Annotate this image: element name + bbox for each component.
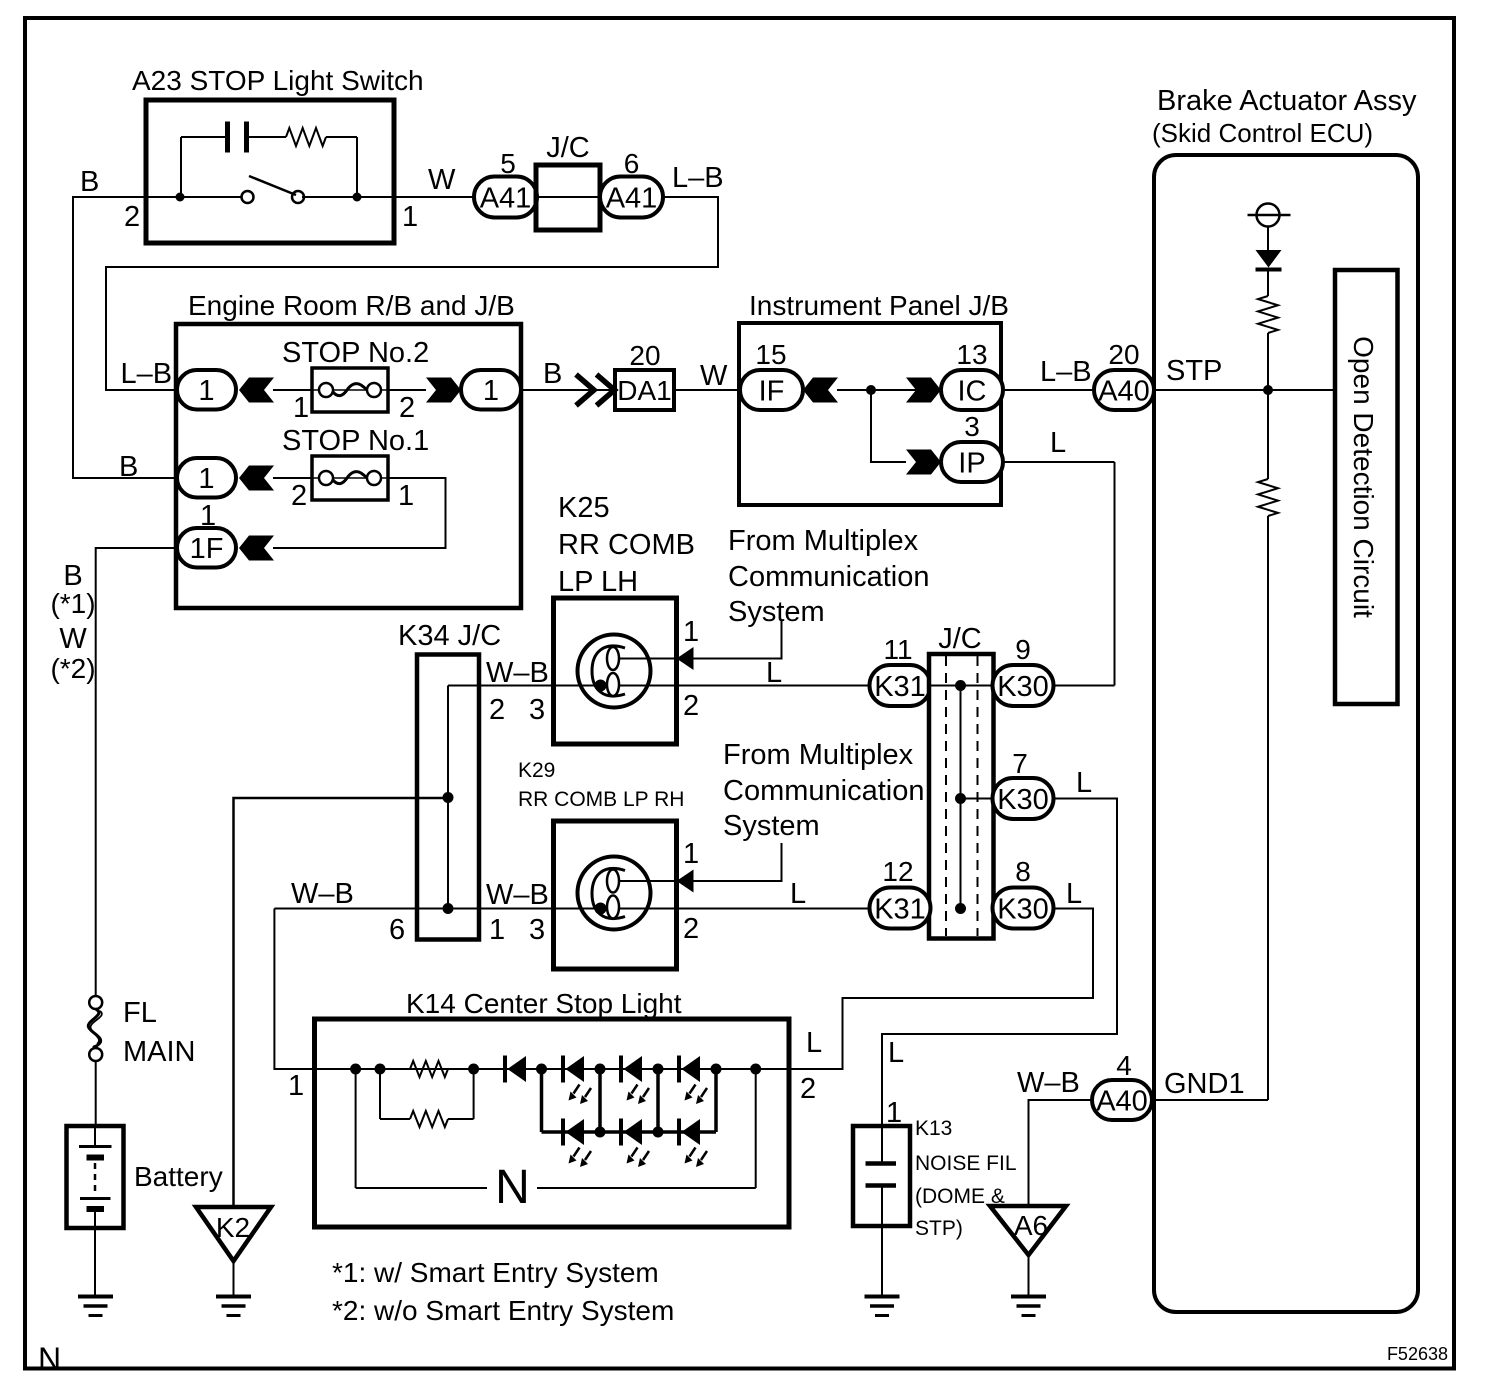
svg-text:1: 1 (293, 392, 309, 424)
connector 1 left row1 (177, 370, 236, 410)
battery internals (94, 1126, 96, 1146)
wire from multiplex 1 (694, 620, 782, 659)
svg-text:13: 13 (956, 339, 987, 370)
arrow after IF (803, 378, 838, 403)
wire K34 to K25 row (448, 685, 556, 687)
LED1 top (561, 1056, 565, 1083)
svg-text:1: 1 (483, 375, 499, 407)
resistor in switch (286, 128, 326, 146)
svg-text:A41: A41 (606, 182, 658, 214)
connector K31 pin 12 (870, 888, 931, 929)
node STP (1263, 385, 1273, 395)
svg-text:RR COMB LP RH: RR COMB LP RH (518, 788, 684, 811)
ladder verticals (540, 1069, 544, 1132)
multiplex arrow K29 (677, 870, 694, 893)
ground below battery (78, 1295, 113, 1299)
ground below A6 (1011, 1295, 1046, 1299)
connector 1 right row1 (461, 370, 521, 410)
connector 1F (177, 528, 236, 568)
wire through J/C (537, 196, 600, 198)
svg-text:N: N (495, 1161, 530, 1214)
node e2 (595, 1127, 606, 1138)
svg-text:L–B: L–B (1040, 356, 1092, 388)
diode (1256, 250, 1282, 268)
wire DA1 to IF (674, 389, 740, 391)
wire K2 to ground (233, 1261, 235, 1296)
svg-text:4: 4 (1116, 1050, 1132, 1081)
N return wire (355, 1069, 357, 1188)
svg-text:System: System (728, 596, 825, 628)
svg-text:(*2): (*2) (50, 653, 95, 684)
svg-text:K13: K13 (915, 1117, 952, 1140)
wire bulb pin1 K25 (618, 658, 677, 660)
svg-text:K25: K25 (558, 492, 610, 524)
svg-text:IF: IF (759, 375, 785, 407)
ground below K13 (865, 1295, 900, 1299)
svg-text:IP: IP (958, 447, 985, 479)
svg-text:W–B: W–B (486, 879, 549, 911)
node dot left (176, 193, 185, 202)
connector K30 pin 7 (993, 778, 1054, 819)
wire K30-9 to IP wire (1054, 685, 1115, 687)
svg-text:System: System (723, 810, 820, 842)
J/C node row2 (955, 793, 966, 804)
wire resistor to right branch (326, 136, 357, 138)
branch wire to capacitor (181, 136, 226, 138)
connector A40 pin 20 (1094, 370, 1154, 410)
svg-text:1: 1 (683, 838, 699, 870)
svg-text:(*1): (*1) (50, 588, 95, 619)
connector DA1 (615, 370, 674, 410)
svg-text:N: N (38, 1341, 61, 1377)
svg-text:20: 20 (629, 340, 660, 371)
wire resistor to node (1267, 333, 1269, 390)
svg-text:(Skid Control ECU): (Skid Control ECU) (1152, 118, 1373, 148)
arrow row1 left (239, 378, 274, 403)
fusible link FL MAIN (89, 996, 102, 1009)
svg-text:W: W (700, 360, 728, 392)
svg-text:20: 20 (1108, 339, 1139, 370)
wire node down (1267, 390, 1269, 479)
wire arrow to fuse1 (273, 477, 312, 479)
wire power to diode (1267, 227, 1269, 251)
svg-text:J/C: J/C (546, 132, 590, 164)
bulb K29 (578, 857, 651, 930)
switch lever (249, 176, 296, 195)
svg-text:Communication: Communication (728, 561, 929, 593)
svg-text:K2: K2 (216, 1212, 250, 1243)
node h (750, 1064, 761, 1075)
ground triangle K2 (196, 1207, 271, 1261)
wire 1F to left vertical (96, 548, 177, 996)
wire lower row (274, 908, 556, 910)
svg-text:2: 2 (800, 1073, 816, 1105)
branch vertical right (356, 137, 358, 197)
resistor upper (1258, 296, 1278, 333)
junction block J/C top (536, 165, 600, 230)
J/C node row1 (955, 680, 966, 691)
node a (350, 1064, 361, 1075)
battery box (67, 1126, 124, 1228)
svg-text:*2: w/o Smart Entry System: *2: w/o Smart Entry System (332, 1295, 674, 1326)
svg-text:12: 12 (882, 856, 913, 887)
LED3 bottom (677, 1119, 681, 1146)
svg-text:6: 6 (624, 148, 640, 179)
connector IC (941, 370, 1003, 410)
wire K30-7 to K13 (882, 799, 1117, 1127)
node f (653, 1064, 664, 1075)
fuse STOP No.1 (312, 456, 388, 500)
wire A40 to A6 (1029, 1100, 1093, 1206)
node dot instrument (866, 385, 876, 395)
wire row through K29 (556, 908, 870, 910)
ground below K2 (216, 1295, 251, 1299)
svg-text:A6: A6 (1014, 1210, 1048, 1241)
wire switch to A41 (394, 196, 476, 198)
connector IF (740, 370, 803, 410)
open detection circuit box (1335, 270, 1398, 704)
svg-text:STP): STP) (915, 1217, 963, 1240)
wire diode to resistor (1267, 269, 1269, 296)
K34 internal bus (447, 686, 449, 909)
svg-text:1: 1 (402, 201, 418, 233)
svg-text:8: 8 (1015, 856, 1031, 887)
svg-text:1: 1 (683, 616, 699, 648)
svg-text:L: L (1076, 767, 1092, 799)
wire capacitor to resistor (249, 136, 286, 138)
svg-text:Communication: Communication (723, 775, 924, 807)
svg-text:W–B: W–B (1017, 1067, 1080, 1099)
svg-text:F52638: F52638 (1387, 1344, 1448, 1364)
svg-text:Engine Room R/B and J/B: Engine Room R/B and J/B (188, 290, 515, 321)
svg-text:GND1: GND1 (1164, 1068, 1245, 1100)
K14 second row (542, 1130, 717, 1134)
svg-text:B: B (543, 358, 562, 390)
svg-text:Brake Actuator Assy: Brake Actuator Assy (1157, 85, 1417, 117)
svg-text:RR COMB: RR COMB (558, 529, 695, 561)
wire GND1 (1154, 1099, 1268, 1101)
wire K2 to K34 (234, 798, 447, 1207)
bulb K25 (578, 635, 651, 708)
wire B from switch pin 2 to fuse row (73, 197, 177, 478)
LED3 top (677, 1056, 681, 1083)
svg-text:FL: FL (123, 997, 157, 1029)
branch vertical left (180, 137, 182, 197)
node f2 (653, 1127, 664, 1138)
svg-text:A23 STOP Light Switch: A23 STOP Light Switch (132, 65, 424, 96)
svg-text:2: 2 (683, 913, 699, 945)
svg-text:K14 Center Stop Light: K14 Center Stop Light (406, 988, 682, 1019)
svg-text:W: W (59, 623, 87, 655)
wire IF to IC (837, 389, 941, 391)
power symbol (1257, 204, 1280, 227)
arrow 1F (239, 536, 274, 561)
svg-text:2: 2 (291, 480, 307, 512)
svg-text:STOP No.1: STOP No.1 (282, 425, 429, 457)
capacitor C plates (225, 122, 230, 153)
svg-text:L: L (888, 1037, 904, 1069)
svg-text:K30: K30 (997, 671, 1049, 703)
svg-text:5: 5 (500, 148, 516, 179)
junction block K34 (417, 655, 479, 940)
junction block J/C middle (929, 654, 994, 939)
wire K30-8 to K14 pin2 (789, 909, 1093, 1070)
LED1 bottom (561, 1119, 565, 1146)
svg-text:L–B: L–B (672, 162, 724, 194)
resistor R2 K14 (410, 1111, 448, 1127)
svg-text:L: L (1066, 878, 1082, 910)
node dot right (353, 193, 362, 202)
wire row1 in J/C (930, 685, 993, 687)
connector A41 pin 6 (600, 177, 663, 218)
svg-text:1: 1 (398, 480, 414, 512)
LED2 top (619, 1056, 623, 1083)
center stop light box (315, 1019, 790, 1227)
node g (711, 1064, 722, 1075)
arrow before IC (906, 378, 941, 403)
wire inside switch right (302, 196, 394, 198)
J/C bus (960, 686, 962, 909)
svg-text:W–B: W–B (291, 878, 354, 910)
wire fuse1 down to 1F row (273, 478, 446, 548)
node b (375, 1064, 386, 1075)
connector 1 left row2 (177, 458, 236, 498)
wire K14pin1 riser (274, 909, 314, 1070)
wire from multiplex 2 (694, 843, 782, 881)
wire L-B from A41 to engine room (106, 197, 718, 390)
arrow row1 right (426, 378, 461, 403)
wire inside switch (146, 196, 242, 198)
wire IP out (1003, 461, 1115, 463)
svg-text:B: B (80, 166, 99, 198)
svg-text:A41: A41 (480, 182, 532, 214)
lamp box K25 (554, 598, 677, 744)
node d (536, 1064, 547, 1075)
resistor lower (1258, 479, 1278, 516)
wire J/C node to K30-7 (961, 798, 993, 800)
connector IP (941, 442, 1003, 482)
label N (487, 1168, 537, 1206)
svg-text:2: 2 (489, 694, 505, 726)
wire row through K25 (556, 685, 870, 687)
brake actuator box (1154, 155, 1418, 1312)
chevron marks (576, 375, 594, 406)
svg-text:Battery: Battery (134, 1161, 223, 1192)
svg-text:3: 3 (529, 914, 545, 946)
connector K30 pin 8 (993, 888, 1054, 929)
instrument panel box (739, 323, 1001, 505)
wire IP riser (1114, 462, 1116, 686)
arrow before IP (906, 450, 941, 475)
wire IC to A40 (1003, 389, 1094, 391)
bulb filament K29 (592, 868, 625, 918)
svg-text:W: W (428, 164, 456, 196)
svg-text:K29: K29 (518, 759, 555, 782)
K34 node lower (443, 903, 454, 914)
svg-text:1: 1 (198, 463, 214, 495)
svg-text:L: L (790, 878, 806, 910)
svg-text:3: 3 (964, 411, 980, 442)
LED2 bottom (619, 1119, 623, 1146)
switch contact right (292, 191, 304, 203)
svg-text:6: 6 (389, 914, 405, 946)
svg-text:L: L (766, 657, 782, 689)
svg-text:K34 J/C: K34 J/C (398, 620, 501, 652)
svg-text:Open Detection Circuit: Open Detection Circuit (1348, 336, 1379, 618)
svg-text:K30: K30 (997, 893, 1049, 925)
K34 node to K2 (443, 792, 454, 803)
svg-text:2: 2 (124, 201, 140, 233)
svg-text:1F: 1F (190, 533, 224, 565)
parallel branch (379, 1069, 381, 1119)
svg-text:DA1: DA1 (617, 375, 671, 406)
svg-text:J/C: J/C (938, 623, 982, 655)
svg-text:1: 1 (489, 914, 505, 946)
K14 main row (315, 1068, 790, 1070)
svg-text:*1: w/ Smart Entry System: *1: w/ Smart Entry System (332, 1257, 659, 1288)
svg-text:K31: K31 (874, 671, 926, 703)
svg-text:IC: IC (958, 375, 987, 407)
svg-text:L–B: L–B (121, 358, 173, 390)
svg-text:NOISE FIL: NOISE FIL (915, 1152, 1017, 1175)
wire node to IP (871, 390, 906, 462)
wire K13 to ground (881, 1186, 883, 1297)
svg-text:MAIN: MAIN (123, 1036, 196, 1068)
arrow row2 left (239, 466, 274, 491)
K13 capacitor (881, 1126, 883, 1164)
node c (468, 1064, 479, 1075)
resistor R1 K14 (410, 1061, 448, 1077)
svg-text:L: L (1050, 427, 1066, 459)
fuse STOP No.2 (312, 368, 388, 412)
svg-text:W–B: W–B (486, 657, 549, 689)
svg-text:K30: K30 (997, 784, 1049, 816)
wire bulb pin1 K29 (618, 880, 677, 882)
svg-text:1: 1 (198, 375, 214, 407)
engine room box (176, 324, 521, 608)
svg-text:L: L (806, 1027, 822, 1059)
J/C node row3 (955, 903, 966, 914)
bulb filament K25 (592, 646, 625, 696)
connector A41 pin 5 (474, 177, 537, 218)
svg-text:LP LH: LP LH (558, 566, 638, 598)
noise filter box K13 (853, 1126, 910, 1226)
svg-text:STP: STP (1166, 355, 1222, 387)
wire fuse2 to arrow (388, 389, 426, 391)
svg-text:3: 3 (529, 694, 545, 726)
svg-text:A40: A40 (1098, 375, 1150, 407)
svg-text:2: 2 (683, 690, 699, 722)
wire arrow to fuse2 (273, 389, 312, 391)
ground triangle A6 (990, 1206, 1066, 1255)
svg-text:K31: K31 (874, 893, 926, 925)
svg-text:9: 9 (1015, 634, 1031, 665)
diode D1 K14 (503, 1056, 507, 1083)
svg-text:From Multiplex: From Multiplex (723, 739, 914, 771)
svg-text:1: 1 (288, 1070, 304, 1102)
svg-text:STOP No.2: STOP No.2 (282, 337, 429, 369)
connector A40 pin 4 (1092, 1080, 1152, 1120)
svg-text:7: 7 (1012, 748, 1028, 779)
node e (595, 1064, 606, 1075)
svg-text:2: 2 (399, 392, 415, 424)
svg-text:A40: A40 (1096, 1085, 1148, 1117)
svg-text:15: 15 (755, 339, 786, 370)
wire row1 to DA1 (521, 389, 615, 391)
svg-text:B: B (119, 451, 138, 483)
multiplex arrow K25 (677, 647, 694, 670)
lamp box K29 (554, 821, 677, 969)
switch box A23 (146, 100, 394, 243)
svg-text:From Multiplex: From Multiplex (728, 525, 919, 557)
wire FL to battery (95, 1061, 97, 1126)
wire STP (1154, 389, 1335, 391)
connector K30 pin 9 (993, 665, 1054, 706)
svg-text:11: 11 (883, 634, 912, 665)
wire A6 to ground (1028, 1255, 1030, 1296)
connector K31 pin 11 (870, 665, 931, 706)
svg-text:Instrument Panel J/B: Instrument Panel J/B (749, 290, 1009, 321)
wire to GND1 (1267, 516, 1269, 1100)
switch contact left (242, 191, 254, 203)
